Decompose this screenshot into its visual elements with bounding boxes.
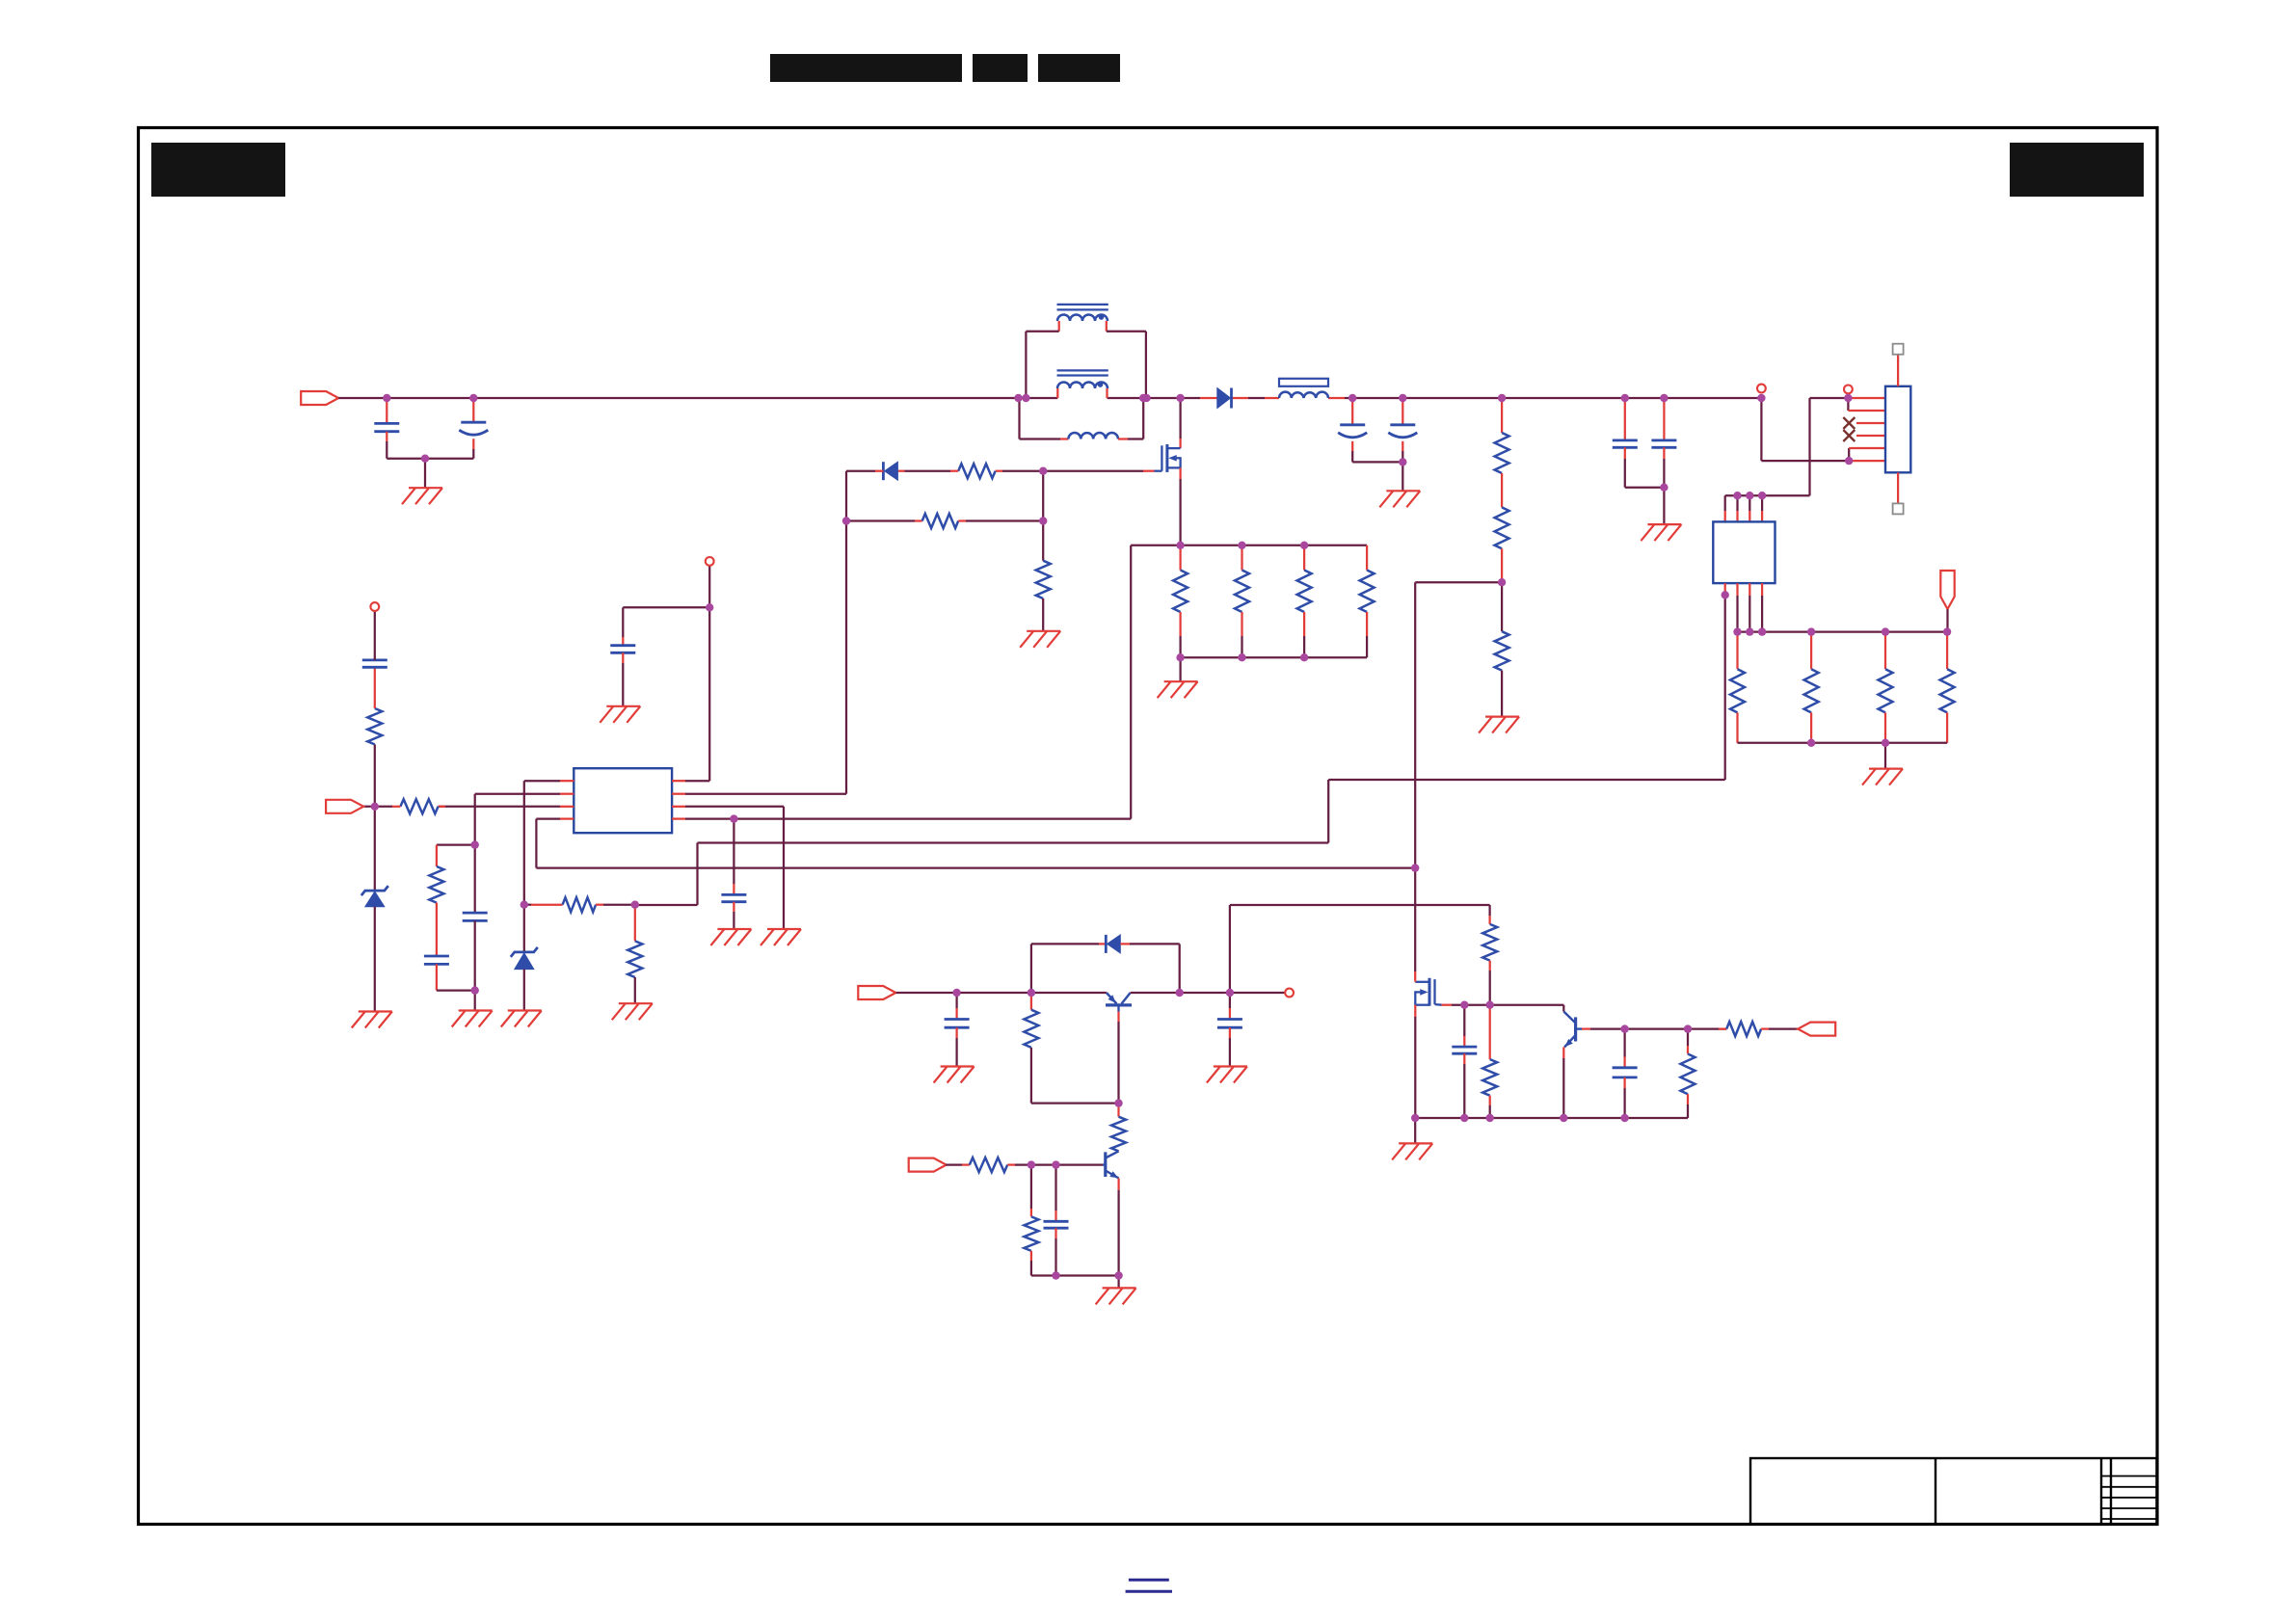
transformer T1 winding	[1057, 314, 1108, 321]
wire C2 bottom stub	[472, 439, 474, 449]
wire row2 left stub	[846, 519, 915, 521]
wire pin3 stub	[1856, 422, 1885, 424]
junction 7	[1142, 394, 1150, 402]
wire U2 bottom pin 4	[1761, 596, 1763, 632]
wire Q3 collector vert	[1562, 1005, 1564, 1012]
wire C16 bottom	[1623, 1088, 1625, 1118]
wire Q1 source stub	[1179, 467, 1181, 479]
wire C11 bottom	[733, 912, 734, 929]
wire Q4 collector out	[1131, 992, 1285, 994]
junction 9	[1348, 394, 1356, 402]
wire R14 bottom stub	[1303, 612, 1305, 636]
wire Q2 bottom bus	[1415, 1117, 1688, 1119]
wire R6 bottom	[1501, 548, 1503, 582]
wire Q2 source vert	[1414, 1017, 1416, 1118]
transformer T2 core	[1057, 370, 1108, 375]
wire Q5 emitter stub	[1117, 1179, 1119, 1190]
ground D4	[352, 1012, 392, 1028]
resistor R26	[1482, 1059, 1497, 1096]
junction 25	[1758, 627, 1766, 635]
logo underline 1	[1129, 1579, 1169, 1582]
capacitor C16	[1613, 1068, 1638, 1078]
wire U1R3 vert	[783, 807, 785, 929]
wire C11 top stub	[733, 884, 734, 894]
junction 11	[1399, 458, 1406, 466]
wire C10 bottom	[622, 663, 624, 706]
wire T1 to pin6	[1761, 460, 1849, 462]
wire rail seg3	[1108, 397, 1201, 399]
diode D3	[1106, 935, 1120, 953]
wire C4 bottom stub	[1402, 441, 1403, 451]
logo underline 2	[1126, 1590, 1172, 1593]
resistor R9	[1804, 669, 1819, 712]
wire R24 top	[1030, 1165, 1032, 1209]
wire sense top bus	[1131, 545, 1367, 546]
diode D1	[1217, 388, 1232, 409]
wire U2 top pin 3 stub	[1749, 511, 1750, 521]
wire Q5 bottom bus	[1031, 1274, 1119, 1276]
resistor R20	[367, 708, 382, 744]
junction 18	[1845, 457, 1853, 465]
transistor Q1 MOSFET	[1155, 444, 1181, 472]
wire U2pin1 vert2	[1327, 780, 1329, 843]
junction 48	[371, 803, 379, 811]
wire rail seg2	[1026, 397, 1057, 399]
junction 52	[1226, 989, 1234, 997]
capacitor C13	[1217, 1020, 1242, 1028]
junction 31	[1498, 578, 1506, 586]
resistor R6	[1495, 507, 1509, 548]
wire Q1 drain stub	[1179, 439, 1181, 448]
port P2	[326, 800, 363, 813]
wire gnd stem Q2 bus	[1414, 1118, 1416, 1143]
title block	[1750, 1458, 2157, 1525]
no-connect pin4	[1843, 430, 1855, 441]
wire Q2 source stub	[1414, 1005, 1416, 1017]
wire RC branch bottom	[437, 989, 475, 991]
wire gnd stem bank	[1884, 743, 1886, 769]
ground Q5	[1096, 1288, 1136, 1304]
wire R26 top stub	[1489, 1005, 1491, 1059]
redacted title bar 3	[1038, 54, 1120, 82]
wire R28 top stub	[1687, 1046, 1689, 1054]
junction 51	[1176, 989, 1184, 997]
wire C3 down	[1351, 451, 1353, 462]
resistor R11	[1940, 669, 1955, 712]
wire R10 bottom stub	[1884, 712, 1886, 742]
junction 10	[1399, 394, 1406, 402]
wire loop left vert	[1030, 944, 1032, 993]
wire U1 right pin stub y810	[672, 780, 685, 782]
wire R2 right stub	[996, 470, 1002, 472]
wire R16 right stub	[596, 904, 603, 906]
ground input filter	[402, 488, 442, 504]
wire U1L3 horiz	[439, 806, 560, 808]
wire gnd stem C6	[1663, 488, 1665, 524]
junction 32	[1411, 864, 1419, 871]
wire D3 anode stub	[1120, 943, 1130, 945]
ground D5	[501, 1011, 542, 1027]
wire C6 bottom stub	[1663, 447, 1665, 459]
wire Q5 base wire	[1015, 1163, 1103, 1165]
wire Q2 gate wire	[1452, 1004, 1563, 1006]
wire R14 top stub	[1303, 545, 1305, 571]
wire R7 top	[1501, 582, 1503, 631]
inductor L1 shield box	[1279, 379, 1328, 386]
junction 35	[1039, 517, 1047, 524]
wire U2pin1 horiz	[1328, 779, 1725, 781]
wire R3 right stub	[958, 519, 966, 521]
wire T1 down	[1760, 398, 1762, 461]
junction 43	[706, 603, 713, 611]
junction 50	[1028, 989, 1035, 997]
wire R18 top	[436, 845, 438, 866]
wire gnd stem Q5	[1117, 1276, 1119, 1289]
wire R3 left stub	[915, 519, 922, 521]
junction 62	[1486, 1114, 1494, 1122]
junction 26	[1807, 627, 1815, 635]
wire R24 top stub	[1030, 1209, 1032, 1216]
wire pin6 stub	[1849, 460, 1885, 462]
wire U1R3 horiz	[685, 806, 784, 808]
capacitor C6	[1651, 440, 1676, 447]
wire U1L4 vert	[535, 819, 537, 868]
wire U2 top pin 2 stub	[1736, 511, 1738, 521]
wire Q3 emitter stub	[1562, 1048, 1564, 1059]
wire top box left horiz	[1026, 331, 1058, 333]
wire gate stub	[1143, 470, 1155, 472]
wire C10 top	[622, 607, 624, 637]
wire U1 left pin stub y849	[560, 817, 574, 819]
wire R9 top stub	[1810, 632, 1812, 670]
wire R4 top	[1042, 521, 1044, 561]
junction 20	[1746, 492, 1753, 499]
junction 4	[1014, 394, 1022, 402]
ground C11	[710, 929, 751, 945]
junction 45	[631, 901, 639, 909]
wire R22 top	[1117, 1104, 1119, 1117]
ground output caps 1	[1379, 491, 1420, 507]
junction 6	[1139, 394, 1147, 402]
resistor R10	[1879, 669, 1893, 712]
wire rail diode stub left	[1200, 397, 1217, 399]
wire Q3 emitter vert	[1562, 1058, 1564, 1118]
junction 23	[1733, 627, 1741, 635]
wire U1R4 horiz	[685, 817, 1131, 819]
resistor R8	[1730, 669, 1745, 712]
wire R11 bottom stub	[1946, 712, 1948, 742]
wire R9 bottom stub	[1810, 712, 1812, 742]
wire U2 top pin 1	[1724, 495, 1726, 511]
wire C15 top	[1463, 1005, 1465, 1036]
wire nodeA R left stub	[524, 904, 531, 906]
capacitor C4	[1388, 425, 1417, 438]
wire C5 top stub	[1624, 398, 1626, 440]
wire R5 top stub	[1501, 398, 1503, 433]
capacitor C1	[374, 423, 399, 431]
wire gnd stem sense	[1179, 657, 1181, 681]
wire J1 bottom pin	[1897, 472, 1899, 503]
wire U2 bottom pin 3	[1749, 596, 1750, 632]
wire Q4col horiz	[1230, 904, 1490, 906]
wire J1 top pin	[1897, 355, 1899, 386]
wire R25 top	[1488, 905, 1490, 916]
wire C12 bottom stub	[955, 1027, 957, 1038]
junction 58	[1460, 1001, 1468, 1009]
wire C13 bottom stub	[1229, 1027, 1231, 1038]
wire U2 bottom pin 3 stub	[1749, 583, 1750, 596]
junction 2	[469, 394, 477, 402]
wire U1 right pin stub y849	[672, 817, 685, 819]
junction 42	[730, 814, 737, 822]
wire rail seg1	[338, 397, 1026, 399]
wire top box right horiz	[1107, 331, 1146, 333]
wire U1L2 vert1	[474, 794, 476, 913]
wire C12 bottom	[955, 1038, 957, 1067]
junction 36	[1176, 542, 1184, 549]
wire Q3 base stub	[1582, 1027, 1590, 1029]
wire U1R1 horiz	[685, 780, 709, 782]
wire R5-R6	[1501, 473, 1503, 507]
wire C15 bottom stub	[1463, 1053, 1465, 1064]
junction 16	[1757, 394, 1765, 402]
wire U1L1 vert	[523, 781, 525, 952]
wire gnd stem input caps	[424, 459, 426, 489]
resistor R24	[1024, 1216, 1038, 1251]
capacitor C12	[945, 1020, 970, 1028]
wire pin4 stub	[1856, 435, 1885, 437]
wire pin5 stub	[1849, 447, 1885, 449]
wire R7 bottom	[1501, 671, 1503, 717]
wire U2 top pin 1 stub	[1724, 511, 1726, 521]
junction 65	[1620, 1024, 1628, 1032]
terminal T3	[706, 557, 714, 566]
wire R27 left stub	[1719, 1027, 1726, 1029]
pad J1 top	[1893, 344, 1904, 355]
wire row2 right	[966, 519, 1043, 521]
junction 5	[1022, 394, 1029, 402]
wire Q5 collector stub	[1117, 1150, 1119, 1152]
wire R15 top stub	[1366, 545, 1368, 571]
wire Q1 source vert	[1179, 479, 1181, 545]
wire RC branch top	[437, 843, 475, 845]
ground R17	[612, 1003, 653, 1020]
transistor Q2 MOSFET	[1415, 978, 1441, 1006]
wire U1L2 vert2	[474, 920, 476, 990]
wire R8 bottom stub	[1736, 712, 1738, 742]
wire U1L2 vert3	[474, 991, 476, 1011]
junction 41	[1300, 653, 1308, 661]
wire rail seg5	[1345, 397, 1761, 399]
junction 29	[1807, 739, 1815, 747]
wire pin5 corner	[1848, 448, 1850, 461]
junction 64	[1620, 1114, 1628, 1122]
wire R21 to base	[1031, 1102, 1119, 1104]
wire C12 top stub	[955, 1008, 957, 1020]
connector J1	[1885, 386, 1910, 473]
transistor Q4 PNP	[1106, 993, 1132, 1012]
wire C10 bottom stub	[622, 652, 624, 663]
ground U1R3	[761, 929, 801, 945]
wire gate junction vert	[1042, 471, 1044, 521]
wire C16 top	[1623, 1029, 1625, 1057]
terminal T2	[1844, 386, 1853, 394]
wire fb vert	[1414, 582, 1416, 971]
junction 57	[1114, 1099, 1122, 1106]
junction 59	[1486, 1001, 1494, 1009]
wire C1 down	[386, 441, 387, 459]
wire R15 bottom	[1366, 636, 1368, 657]
wire R27 right stub	[1761, 1027, 1769, 1029]
terminal T1 VOUT	[1757, 385, 1766, 393]
port P3	[858, 986, 895, 999]
resistor R28	[1681, 1054, 1695, 1095]
wire C6 top stub	[1663, 398, 1665, 440]
wire C5-C6 bottom	[1625, 487, 1665, 489]
wire gate seg3	[905, 470, 951, 472]
wire C12 top	[955, 993, 957, 1008]
wire L2 left stub	[1060, 438, 1068, 439]
wire U2 top bus	[1725, 494, 1810, 496]
wire R15 bottom stub	[1366, 612, 1368, 636]
wire R4 bottom	[1042, 599, 1044, 631]
wire D2 cathode stub	[875, 470, 883, 472]
redacted block top-right	[2010, 143, 2144, 197]
wire U2 bottom pin 2	[1736, 596, 1738, 632]
wire U2 pin1 vert	[1724, 595, 1726, 780]
wire C2 top stub	[472, 398, 474, 422]
wire Q2 drain stub	[1414, 971, 1416, 980]
wire R16 left stub	[531, 904, 563, 906]
junction 17	[1844, 394, 1852, 402]
junction 3	[421, 455, 429, 463]
junction 44	[521, 901, 528, 909]
wire C13 top	[1229, 993, 1231, 1008]
transistor Q5 NPN	[1103, 1151, 1119, 1178]
capacitor C10	[610, 646, 635, 653]
wire R23 right stub	[1007, 1163, 1015, 1165]
resistor R16	[563, 897, 597, 912]
wire pin1 stub	[1848, 397, 1885, 399]
capacitor C15	[1452, 1047, 1477, 1053]
wire U1 left pin stub y836	[560, 806, 574, 808]
wire bottom box right vert	[1142, 398, 1144, 439]
wire R23 left stub	[962, 1163, 970, 1165]
junction 61	[1460, 1114, 1468, 1122]
wire R28 top	[1687, 1029, 1689, 1046]
wire R26 bottom stub	[1489, 1096, 1491, 1105]
wire C16 bottom stub	[1623, 1078, 1625, 1088]
wire C11 top	[733, 819, 734, 884]
resistor R17	[627, 941, 642, 977]
wire C13 top stub	[1229, 1008, 1231, 1020]
wire R26 bottom	[1489, 1105, 1491, 1118]
wire term2 left	[1808, 398, 1810, 495]
wire U1 left pin stub y810	[560, 780, 574, 782]
wire top box right vert	[1145, 332, 1147, 398]
wire U2 top pin 2	[1736, 495, 1738, 511]
wire C5 bottom stub	[1624, 447, 1626, 459]
capacitor C11	[721, 894, 746, 901]
wire R28 bottom stub	[1687, 1094, 1689, 1104]
wire R2 left stub	[950, 470, 958, 472]
wire C2 down	[472, 449, 474, 459]
resistor R25	[1482, 924, 1497, 961]
wire L2 right stub	[1118, 438, 1128, 439]
ground C12	[934, 1067, 974, 1083]
transistor Q3 NPN	[1563, 1012, 1582, 1048]
wire R14 bottom	[1303, 636, 1305, 657]
wire R13 top stub	[1241, 545, 1242, 571]
capacitor C5	[1613, 440, 1638, 447]
wire V1 up1	[374, 744, 376, 806]
resistor R5	[1495, 433, 1509, 473]
wire Q2 drain link	[1414, 980, 1416, 982]
junction 46	[471, 840, 479, 848]
wire inductor stub left	[1265, 397, 1279, 399]
resistor R18	[429, 866, 443, 903]
resistor R14	[1297, 571, 1312, 613]
wire Q4 base stub	[1117, 1012, 1119, 1023]
ground Q2 bus	[1392, 1143, 1432, 1159]
resistor R7	[1495, 631, 1509, 670]
wire loop top left	[1031, 943, 1099, 945]
wire C14 top	[1055, 1165, 1056, 1211]
junction 66	[1684, 1024, 1692, 1032]
capacitor C3	[1338, 425, 1367, 438]
wire C11 bottom stub	[733, 902, 734, 912]
wire P3 out	[896, 992, 1107, 994]
junction 37	[1238, 542, 1245, 549]
wire loop right vert	[1179, 944, 1181, 993]
resistor R23	[970, 1157, 1007, 1172]
wire R10 top stub	[1884, 632, 1886, 670]
junction 49	[952, 989, 960, 997]
wire C14 top stub	[1055, 1211, 1056, 1221]
ground resistor bank	[1862, 769, 1903, 785]
resistor R3	[922, 514, 959, 528]
wire R25 bottom	[1489, 971, 1491, 1005]
wire bank top bus	[1738, 630, 1948, 632]
wire C4 top stub	[1402, 398, 1403, 425]
pad J1 bottom	[1893, 503, 1904, 514]
resistor R13	[1235, 571, 1249, 613]
resistor R21	[1024, 1010, 1038, 1048]
ground gate network	[1020, 631, 1060, 648]
junction 63	[1560, 1114, 1567, 1122]
junction 30	[1882, 739, 1889, 747]
junction 54	[1052, 1160, 1059, 1168]
port P5	[1798, 1023, 1835, 1036]
junction 60	[1411, 1114, 1419, 1122]
wire Q4col riser	[1229, 905, 1231, 993]
wire pin2 stub	[1848, 410, 1885, 412]
ground C13	[1207, 1067, 1247, 1083]
wire C1-C2 bottom	[387, 458, 473, 460]
junction 13	[1621, 394, 1629, 402]
wire top box left vert	[1025, 332, 1027, 398]
wire U1 left pin stub y823	[560, 793, 574, 795]
inductor L1	[1279, 392, 1328, 398]
zener D4	[361, 886, 388, 907]
wire C4 down	[1402, 451, 1403, 462]
wire Q3 base wire	[1590, 1027, 1726, 1029]
wire gate seg4	[846, 470, 875, 472]
no-connect pin3	[1843, 417, 1855, 429]
wire U2 top pin 4	[1761, 495, 1763, 511]
wire inductor stub right	[1328, 397, 1345, 399]
junction 28	[1943, 627, 1951, 635]
